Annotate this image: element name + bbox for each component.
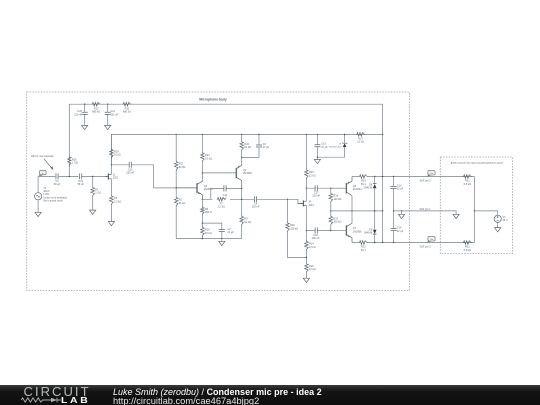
- node junction Q3 emitter: [202, 199, 203, 200]
- svg-text:680 kΩ: 680 kΩ: [123, 111, 131, 114]
- resistor R18: [329, 192, 333, 203]
- resistor R22: [92, 102, 101, 106]
- capacitor C21: [105, 112, 111, 114]
- wire C11 branch: [211, 188, 242, 199]
- resistor R24: [359, 175, 368, 179]
- svg-text:J201: J201: [308, 204, 314, 207]
- svg-text:56 nF: 56 nF: [77, 183, 84, 186]
- wire base Q6: [331, 187, 347, 189]
- wire base Q7: [331, 230, 347, 232]
- svg-text:J201: J201: [113, 177, 119, 180]
- svg-text:XLR pin 3: XLR pin 3: [420, 245, 432, 248]
- zener diode D1: [343, 143, 347, 147]
- svg-text:48 V: 48 V: [503, 219, 508, 222]
- wire gnd stub: [221, 239, 223, 242]
- svg-text:39.1: 39.1: [361, 249, 366, 252]
- svg-text:68 µF: 68 µF: [54, 183, 61, 186]
- svg-text:9.1 kΩ: 9.1 kΩ: [205, 157, 212, 160]
- node junction Q2 base wire: [202, 172, 203, 173]
- svg-text:Microphone body: Microphone body: [199, 97, 227, 101]
- footer text: [113, 387, 322, 397]
- node junction base Q6: [330, 188, 331, 189]
- wire R17 column: [175, 134, 177, 238]
- resistor R20: [240, 140, 244, 151]
- capacitor C20: [82, 112, 88, 114]
- node junction C21/top rail: [107, 104, 108, 105]
- capacitor C4: [254, 196, 256, 202]
- wire diode column: [374, 177, 376, 243]
- node junction R26/input: [69, 176, 70, 177]
- svg-text:100 kΩ: 100 kΩ: [333, 221, 341, 224]
- node junction base Q3: [176, 187, 177, 188]
- wire C13/C14 column: [393, 177, 395, 243]
- resistor R16: [201, 226, 205, 237]
- node junction C20/top rail: [84, 104, 85, 105]
- svg-text:D1: D1: [339, 144, 343, 146]
- node junction diode mid: [374, 210, 375, 211]
- svg-text:82 kΩ: 82 kΩ: [179, 166, 186, 169]
- wire gnd stub3: [401, 211, 403, 214]
- wire J1 drain: [110, 165, 112, 175]
- node junction drain/C10: [111, 164, 112, 165]
- node junction C14 bottom: [393, 242, 394, 243]
- svg-text:1 GΩ: 1 GΩ: [72, 162, 78, 165]
- capacitor C3: [256, 145, 262, 147]
- node junction base Q7: [330, 230, 331, 231]
- wire C3 top: [258, 134, 260, 145]
- node junction rail/R20: [241, 134, 242, 135]
- wire phantom supply: [474, 211, 497, 215]
- diode D5: [373, 230, 377, 234]
- resistor R15: [305, 262, 309, 273]
- wire gnd stub2: [316, 157, 318, 159]
- svg-text:1N4148: 1N4148: [364, 186, 373, 189]
- transistor Q6: [345, 183, 347, 193]
- wire XLR pin 1: [394, 211, 457, 214]
- wire J4 drain: [305, 188, 307, 230]
- wire C3 link: [242, 148, 259, 158]
- svg-text:2N3904: 2N3904: [353, 188, 362, 191]
- resistor R2: [174, 196, 178, 207]
- annotation arrow: [44, 159, 52, 168]
- wire out top: [352, 176, 474, 178]
- transistor Q7: [345, 225, 347, 235]
- node junction bias mid: [330, 210, 331, 211]
- wire out bottom: [352, 242, 474, 244]
- svg-text:12 kΩ: 12 kΩ: [309, 174, 316, 177]
- svg-text:2.2 kΩ: 2.2 kΩ: [218, 206, 225, 209]
- resistor R25: [305, 169, 309, 180]
- wire C17 link: [306, 187, 330, 189]
- ground below V3: [495, 228, 501, 232]
- wire J1 source: [110, 179, 112, 195]
- svg-text:91 kΩ: 91 kΩ: [179, 202, 186, 205]
- svg-text:47 µF: 47 µF: [263, 146, 270, 149]
- ground on XLR pin 1 (left): [399, 214, 405, 218]
- resistor R13: [201, 152, 205, 163]
- svg-text:47 kΩ: 47 kΩ: [309, 246, 316, 249]
- ground below R3: [108, 221, 114, 225]
- svg-text:1 GΩ: 1 GΩ: [95, 192, 101, 195]
- wire R13 column: [201, 134, 203, 181]
- svg-text:Not in actual circuit.: Not in actual circuit.: [43, 199, 63, 202]
- svg-text:XLR pin 1: XLR pin 1: [420, 208, 432, 211]
- wire V1 bottom: [37, 200, 39, 212]
- capacitor C14: [391, 229, 397, 231]
- ground below C21: [105, 125, 111, 129]
- svg-text:Source is for simulation.: Source is for simulation.: [43, 197, 68, 200]
- wire R3 bottom: [110, 206, 112, 222]
- wire Q3 collector to Q2 base: [202, 172, 236, 174]
- node junction rail/R17: [176, 134, 177, 135]
- resistor R17: [174, 160, 178, 171]
- node junction C13 top: [393, 176, 394, 177]
- svg-text:91 kΩ: 91 kΩ: [244, 146, 251, 149]
- wire C10 path: [111, 165, 176, 188]
- svg-text:1N4148: 1N4148: [364, 232, 373, 235]
- svg-text:6.8 kΩ: 6.8 kΩ: [464, 183, 471, 186]
- voltage source V3: [494, 215, 501, 222]
- capacitor C17: [315, 185, 317, 191]
- diode D4: [373, 183, 377, 185]
- svg-text:XLR pin 2: XLR pin 2: [420, 179, 432, 182]
- node junction rail/R25: [306, 134, 307, 135]
- wire C20 branch: [84, 104, 86, 125]
- wire Q2 collector down: [241, 188, 243, 238]
- svg-text:22 µF: 22 µF: [227, 231, 234, 234]
- resistor R7: [217, 198, 226, 202]
- wire stage2 link: [242, 199, 304, 203]
- transistor Q3: [196, 183, 198, 193]
- svg-text:22 µF: 22 µF: [397, 188, 404, 191]
- wire console vertical: [473, 177, 475, 243]
- svg-text:91 kΩ: 91 kΩ: [114, 154, 121, 157]
- capacitor C2: [219, 230, 225, 232]
- svg-text:220 nF: 220 nF: [110, 113, 118, 116]
- resistor R30: [286, 222, 290, 233]
- svg-text:22 µF: 22 µF: [397, 230, 404, 233]
- svg-text:100 kΩ: 100 kΩ: [333, 198, 341, 201]
- svg-text:Out: Out: [430, 172, 434, 175]
- resistor R3: [110, 195, 114, 206]
- resistor R32: [463, 241, 472, 245]
- wire R25 column: [305, 134, 307, 188]
- svg-text:2N3906: 2N3906: [243, 172, 252, 175]
- svg-text:1 kHz: 1 kHz: [43, 193, 50, 196]
- node junction R16/ground rail: [202, 238, 203, 239]
- svg-text:390 Ω: 390 Ω: [205, 211, 212, 214]
- svg-text:39.1: 39.1: [361, 183, 366, 186]
- node junction gnd tap: [401, 210, 402, 211]
- node junction console mid: [474, 210, 475, 211]
- ground below R15: [303, 278, 309, 282]
- wire mid output rail: [331, 210, 383, 212]
- node junction R20/C3: [241, 157, 242, 158]
- capacitor C16: [314, 145, 320, 147]
- node tag In: [38, 174, 42, 176]
- node junction D5 bottom: [374, 242, 375, 243]
- wire V1 top: [37, 176, 39, 192]
- svg-text:47 kΩ: 47 kΩ: [309, 268, 316, 271]
- node tag Out (XLR pin 3): [427, 240, 431, 242]
- svg-text:BZV55C4V7: BZV55C4V7: [329, 146, 342, 148]
- svg-text:220 nF: 220 nF: [312, 195, 320, 198]
- svg-text:91 kΩ: 91 kΩ: [244, 221, 251, 224]
- ground below V1: [35, 212, 41, 216]
- node junction rail/C16: [317, 134, 318, 135]
- wire bottom ground rail: [176, 238, 242, 240]
- svg-text:6.8 kΩ: 6.8 kΩ: [464, 249, 471, 252]
- transistor Q2: [235, 168, 237, 179]
- node junction C18 tap: [306, 230, 307, 231]
- resistor R19: [329, 215, 333, 226]
- wire C16 branch: [317, 134, 344, 157]
- node junction main vertical / out top: [382, 176, 383, 177]
- wire collector rail: [351, 196, 353, 224]
- ground below C16: [314, 159, 320, 163]
- svg-text:1 µF: 1 µF: [222, 197, 228, 200]
- node junction C2 tap: [202, 222, 203, 223]
- svg-text:Out: Out: [430, 238, 434, 241]
- wire V3 bottom: [497, 222, 499, 227]
- wire R20 column: [241, 134, 243, 164]
- svg-text:12 kΩ: 12 kΩ: [357, 141, 364, 144]
- capacitor C12: [80, 173, 82, 179]
- microphone body enclosure (dashed box): [27, 92, 410, 291]
- wire emitter node to R7: [202, 198, 241, 200]
- resistor R10: [122, 102, 131, 106]
- capacitor C10: [129, 162, 131, 168]
- svg-text:91 kΩ: 91 kΩ: [205, 232, 212, 235]
- node junction C17 tap: [306, 188, 307, 189]
- resistor R26: [68, 156, 72, 167]
- node junction R7/C4: [241, 199, 242, 200]
- wire inner supply rail: [111, 134, 382, 164]
- resistor R14: [305, 240, 309, 251]
- node junction main vertical / out bottom: [382, 242, 383, 243]
- node tag Out (XLR pin 2): [427, 174, 431, 176]
- resistor R31: [463, 175, 472, 179]
- wire bias column: [330, 188, 332, 230]
- svg-text:47 µF: 47 µF: [321, 146, 328, 149]
- capacitor C13: [391, 186, 397, 188]
- capacitor C18: [315, 228, 317, 234]
- wire C21 branch: [107, 104, 109, 125]
- audio console enclosure (dashed box): [440, 157, 512, 254]
- svg-text:220 nF: 220 nF: [312, 237, 320, 240]
- wire zener top: [344, 134, 346, 143]
- wire R28 lower stub: [110, 159, 112, 165]
- capacitor C1: [56, 173, 58, 179]
- resistor R27: [356, 133, 365, 137]
- resistor R8: [240, 215, 244, 226]
- svg-text:Audio console mic input provid: Audio console mic input providing phanto…: [451, 161, 504, 164]
- node junction Q2 collector / C11: [241, 188, 242, 189]
- node junction R30 return: [306, 257, 307, 258]
- wire R30 column: [288, 199, 307, 257]
- node junction D4 top: [374, 176, 375, 177]
- resistor R23: [359, 241, 368, 245]
- node junction rail/C3: [258, 134, 259, 135]
- wire R1 stub: [92, 177, 94, 211]
- node junction gnd/C16: [317, 157, 318, 158]
- resistor R6: [201, 206, 205, 215]
- svg-text:330 kΩ: 330 kΩ: [290, 227, 298, 230]
- ground below R1: [90, 210, 96, 214]
- svg-text:48mV mic capsule: 48mV mic capsule: [31, 154, 54, 158]
- node junction rail/main vertical: [382, 134, 383, 135]
- wire R6 column: [201, 199, 203, 238]
- transistor J1 (JFET): [107, 174, 109, 180]
- node junction rail/R13: [202, 134, 203, 135]
- node junction R1/input: [92, 176, 93, 177]
- resistor R28: [110, 148, 114, 159]
- wire C18 link: [306, 230, 330, 232]
- wire R28b column: [305, 231, 307, 279]
- capacitor C11: [224, 185, 226, 191]
- svg-text:680 kΩ: 680 kΩ: [92, 111, 100, 114]
- node junction R30 tap: [287, 199, 288, 200]
- node junction C13/C14 mid: [393, 210, 394, 211]
- svg-text:220 nF: 220 nF: [126, 172, 134, 175]
- wire input node: [38, 176, 103, 178]
- transistor J4 (JFET): [302, 200, 304, 206]
- node junction collector/mid: [351, 210, 352, 211]
- node junction main vertical / mid: [382, 210, 383, 211]
- node junction rail/D1: [344, 134, 345, 135]
- node junction C2/ground rail: [221, 238, 222, 239]
- svg-text:220 nF: 220 nF: [74, 114, 82, 117]
- CircuitLab logo: [24, 384, 91, 399]
- wire top supply rail: [69, 104, 382, 242]
- svg-text:2N3906: 2N3906: [353, 230, 362, 233]
- wire C2 branch: [202, 223, 221, 239]
- svg-text:2.2 kΩ: 2.2 kΩ: [114, 200, 121, 203]
- ground on XLR pin 1 (right): [453, 214, 459, 218]
- ground below C20: [82, 125, 88, 129]
- svg-text:220 nF: 220 nF: [252, 206, 260, 209]
- wire R28 upper stub: [110, 134, 112, 148]
